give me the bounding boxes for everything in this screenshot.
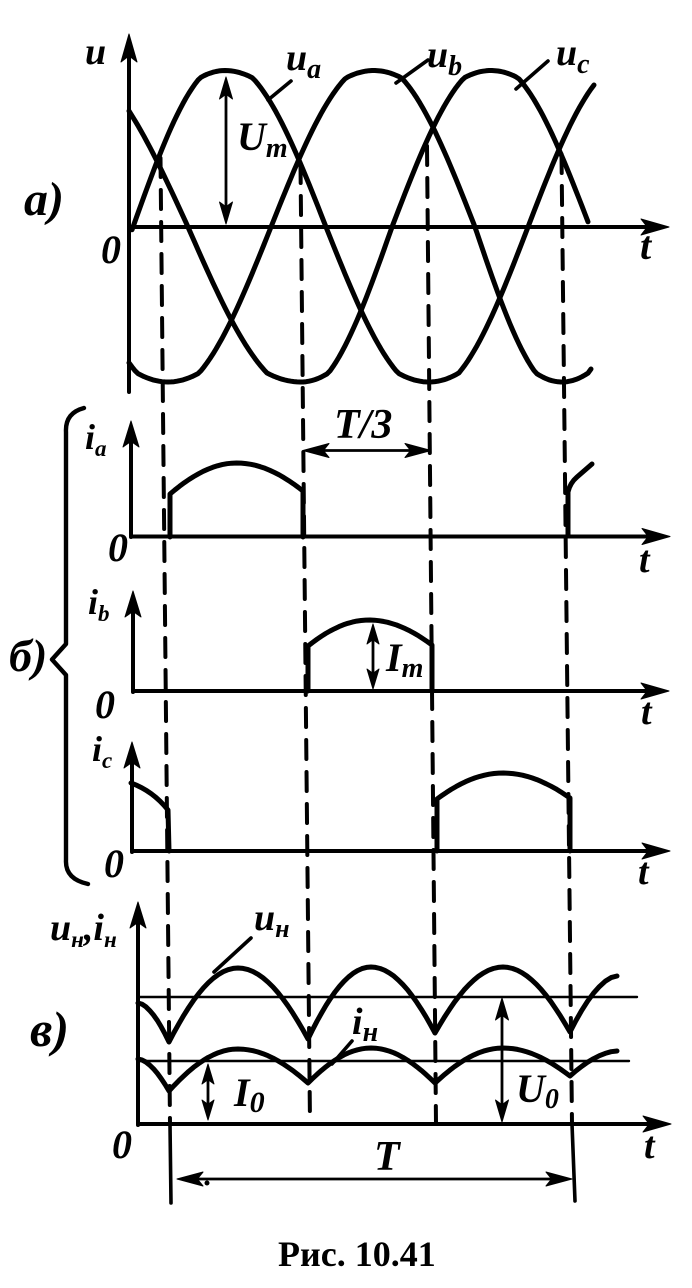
current axis i_b — [131, 610, 135, 692]
svg-text:б): б) — [9, 630, 47, 681]
svg-text:0: 0 — [108, 525, 128, 570]
svg-text:t: t — [638, 851, 650, 893]
dashed timing line 3 — [427, 146, 436, 1124]
level line U_0 — [138, 996, 637, 998]
dashed timing line 2 — [301, 164, 311, 1124]
dashed timing line 4 — [562, 154, 573, 1124]
measure arrow I_m — [372, 629, 375, 684]
svg-text:T/3: T/3 — [334, 402, 392, 448]
svg-text:T: T — [374, 1134, 402, 1180]
svg-text:0: 0 — [95, 682, 115, 727]
svg-text:t: t — [644, 1125, 656, 1167]
measure arrow U_0 — [501, 1003, 504, 1117]
svg-text:а): а) — [24, 173, 64, 226]
current pulse i_a — [170, 463, 303, 537]
measure arrow T/3 — [307, 449, 427, 452]
load current curve i_n — [138, 1048, 617, 1091]
svg-text:0: 0 — [112, 1122, 132, 1167]
leader u_b — [396, 60, 428, 83]
svg-text:t: t — [640, 223, 653, 268]
current pulse i_c — [437, 773, 570, 851]
sine u_a — [132, 71, 594, 383]
leader u_c — [516, 61, 548, 89]
tick line 1 lower solid (T measure left tick) — [170, 1124, 171, 1203]
current axis i_c — [130, 763, 134, 852]
dashed timing line 1 — [161, 158, 171, 1124]
stray dot — [205, 1181, 210, 1186]
leader u_a — [268, 81, 291, 100]
sine u_c — [129, 71, 588, 383]
load voltage curve u_n — [138, 967, 617, 1042]
svg-text:Рис. 10.41: Рис. 10.41 — [278, 1234, 436, 1274]
current pulse i_b — [308, 620, 432, 691]
leader u_n — [214, 938, 251, 972]
load axis u_n,i_n — [136, 922, 140, 1125]
leader i_n — [332, 1041, 352, 1064]
current axis i_a — [129, 442, 133, 537]
current pulse i_c left fragment — [131, 783, 169, 851]
panel a: voltage axis (u) — [127, 55, 131, 392]
time axis of i_c — [132, 849, 647, 853]
svg-text:t: t — [641, 691, 653, 733]
panel a: time axis (t) — [129, 225, 646, 229]
time axis of i_b — [133, 689, 646, 693]
svg-text:0: 0 — [104, 841, 124, 886]
time axis of i_a — [131, 535, 647, 539]
measure arrow U_m — [225, 84, 228, 218]
brace panel b — [52, 408, 88, 884]
time axis of panel v — [138, 1122, 648, 1126]
svg-text:в): в) — [30, 1001, 69, 1057]
svg-text:0: 0 — [101, 227, 121, 272]
svg-text:u: u — [85, 31, 106, 73]
tick line 4 lower solid (T measure right tick) — [572, 1124, 575, 1201]
svg-text:t: t — [639, 539, 651, 581]
measure arrow I_0 — [207, 1068, 210, 1116]
current pulse i_a right fragment — [568, 464, 592, 535]
sine u_b — [129, 71, 591, 383]
measure arrow T — [183, 1178, 567, 1181]
level line I_0 — [138, 1060, 629, 1062]
